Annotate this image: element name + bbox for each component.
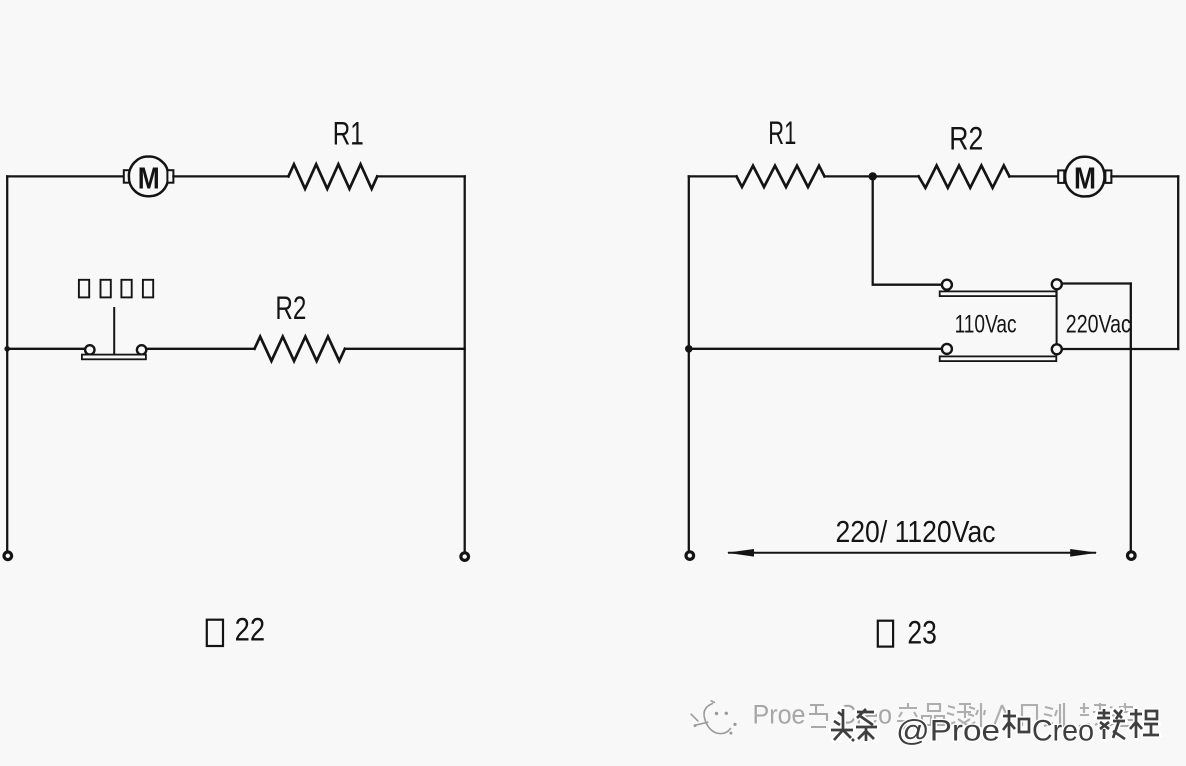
watermark logo sketch: [691, 701, 730, 734]
svg-text:@Proe: @Proe: [896, 715, 1000, 748]
wire top-left to R1 (right): [689, 175, 737, 177]
wire between switch right contacts: [1056, 290, 1058, 345]
switch S2 right contact: [1052, 279, 1062, 289]
wire bottom horizontal (right circuit): [689, 348, 942, 350]
wire right vertical upper: [1177, 176, 1179, 349]
svg-text:R1: R1: [768, 115, 796, 151]
watermark light char yu: [809, 705, 827, 727]
watermark dark char tou: [831, 709, 854, 741]
motor M1 right tab: [167, 170, 173, 183]
switch S3 left contact: [942, 344, 952, 354]
watermark light chars ru men dao jing tong: [994, 703, 1135, 727]
wire motor to R1: [173, 175, 288, 177]
motor M1 left tab: [124, 170, 130, 183]
svg-text:220Vac: 220Vac: [1066, 311, 1131, 339]
svg-text:Proe: Proe: [753, 700, 806, 730]
svg-text:M: M: [138, 161, 160, 196]
switch S1 actuator: [113, 308, 115, 354]
terminal bottom-left: [4, 552, 12, 560]
wire R2 to motor (right): [1009, 175, 1058, 177]
wire switch to R2: [146, 348, 254, 350]
svg-text:22: 22: [235, 612, 266, 648]
wire left vertical (right circuit): [688, 176, 690, 551]
motor M1 body: [129, 157, 168, 197]
watermark light chars chan pin she ji: [897, 703, 985, 729]
junction node top: [869, 172, 877, 180]
watermark dark char cheng: [1130, 709, 1159, 738]
wire right vertical: [464, 176, 466, 552]
wire S2 to right drop: [1062, 282, 1131, 284]
watermark dark char he: [1003, 710, 1029, 738]
switch S2 bar: [940, 291, 1057, 296]
switch S1 left contact: [85, 345, 94, 354]
svg-text:220/ 1120Vac: 220/ 1120Vac: [836, 514, 996, 549]
switch S3 bar: [940, 356, 1057, 361]
caption fig 22 box: [207, 620, 223, 646]
switch S1 label box 3: [121, 280, 131, 298]
junction node middle-left: [4, 346, 10, 352]
switch S1 label box 4: [143, 280, 153, 298]
wire top-left horizontal to motor: [7, 175, 124, 177]
dimension arrow 220/1120Vac: [727, 549, 1098, 557]
wire junction drop: [873, 176, 942, 284]
wire right drop vertical: [1130, 284, 1132, 552]
wire S3 to right vertical: [1062, 348, 1178, 350]
svg-text:110Vac: 110Vac: [955, 311, 1017, 339]
svg-text:Creo: Creo: [1032, 715, 1094, 748]
watermark dark char jiao: [1097, 709, 1125, 739]
wire R1 to R2 (right): [825, 175, 919, 177]
watermark dark char tiao: [856, 709, 877, 741]
motor M2 left tab: [1058, 170, 1064, 183]
svg-text:M: M: [1074, 161, 1096, 196]
switch S3 right contact: [1052, 344, 1062, 354]
wire middle-left to switch: [7, 348, 85, 350]
svg-text:R2: R2: [275, 290, 306, 326]
resistor R2 (right): [919, 166, 1010, 188]
svg-text:R1: R1: [333, 116, 364, 152]
wire R2 to right vertical: [345, 348, 465, 350]
switch S1 label box 2: [101, 280, 111, 298]
resistor R1 (right): [737, 166, 825, 187]
resistor R1 (left): [288, 164, 377, 189]
motor M2 body: [1065, 157, 1104, 197]
wire motor to top-right corner: [1111, 175, 1178, 177]
svg-text:23: 23: [907, 615, 937, 651]
caption fig 23 box: [878, 621, 893, 647]
switch S1 bar: [82, 355, 146, 360]
svg-text:R2: R2: [949, 120, 983, 156]
wire R1 to top-right corner: [377, 175, 465, 177]
resistor R2 (left): [255, 337, 345, 361]
terminal bottom-right (right circuit): [1128, 552, 1136, 560]
junction node bottom-left: [685, 345, 693, 353]
switch S1 right contact: [137, 345, 146, 354]
terminal bottom-right: [461, 553, 469, 561]
switch S1 label box 1: [79, 280, 89, 298]
terminal bottom-left (right circuit): [686, 552, 694, 560]
switch S2 left contact: [942, 280, 952, 290]
motor M2 right tab: [1105, 170, 1111, 183]
wire left vertical: [6, 176, 8, 551]
